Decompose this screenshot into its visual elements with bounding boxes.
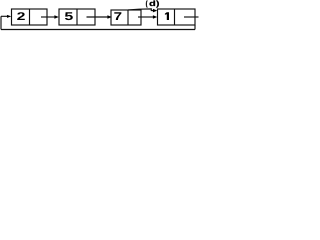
wire wrap left edge up — [0, 16, 2, 29]
node 4 divider — [174, 9, 176, 25]
value 1 — [165, 12, 169, 20]
arrowhead into node4 upper — [153, 9, 157, 13]
arrowhead into node3 — [107, 15, 111, 19]
wire arrow node2 to node3 — [87, 16, 109, 18]
wire wrap right edge down — [194, 25, 196, 30]
value 7 — [114, 12, 121, 20]
wire node4 pointer stub — [184, 16, 199, 18]
arrowhead into node1 — [7, 15, 11, 18]
arrowhead into node4 lower — [153, 15, 157, 19]
label (d) letter d — [150, 1, 156, 7]
node 2 box — [59, 9, 95, 25]
wire up-and-over from node3 divider — [128, 9, 154, 11]
node 1 box — [12, 9, 48, 25]
label (d) paren right — [156, 1, 159, 8]
value 2 — [17, 12, 25, 20]
wire wrap into node1 — [1, 15, 8, 17]
node 4 box — [158, 9, 196, 25]
label (d) paren left — [146, 1, 148, 8]
node 1 divider — [29, 9, 31, 25]
wire wrap bottom — [1, 29, 195, 31]
wire arrow node1 to node2 — [41, 16, 56, 18]
arrowhead into node2 — [54, 15, 58, 19]
wire arrow node3 to node4 lower — [138, 16, 154, 18]
value 5 — [65, 12, 73, 20]
node 2 divider — [76, 9, 78, 25]
node 3 box — [111, 10, 141, 25]
node 3 divider — [127, 10, 129, 25]
